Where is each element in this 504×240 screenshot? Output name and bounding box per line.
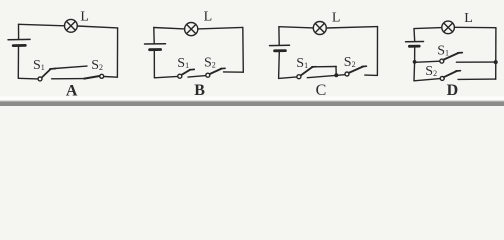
wire: A top-right segment	[77, 26, 118, 28]
switch S2 (D) contact circle	[440, 76, 444, 80]
wire: D middle line left	[415, 61, 440, 62]
wire: C left edge upper	[278, 27, 280, 45]
svg-text:B: B	[194, 82, 205, 99]
switch S1 (C) blade tip dash	[312, 66, 316, 68]
switch S1 (D) blade	[443, 53, 458, 60]
lamp L (B)	[185, 23, 198, 36]
wire: D bottom-left	[414, 79, 440, 81]
wire: A left edge upper	[18, 24, 20, 39]
lamp L (C)	[313, 22, 326, 35]
wire: A lower fixed-contact line	[52, 78, 85, 80]
wire: C top-left segment	[279, 27, 313, 28]
battery (C) short plate	[275, 49, 286, 52]
battery (C) long plate	[270, 44, 290, 46]
wire: C bottom-left	[279, 77, 297, 79]
switch S2 (A) blade	[84, 76, 99, 79]
switch S1 (C) blade	[301, 67, 313, 76]
battery (A) short plate	[13, 44, 25, 47]
svg-text:C: C	[316, 82, 327, 99]
wire: A bottom-left	[18, 77, 38, 80]
switch S2 (D) blade tip dash	[456, 70, 460, 72]
lamp L (D)	[442, 21, 455, 34]
wire: D right edge	[495, 28, 497, 79]
wire: B right edge	[242, 27, 245, 72]
white strip above bottom bar	[0, 97, 504, 102]
switch S1 (A) blade	[42, 69, 51, 78]
switch S1 (D) contact circle	[440, 59, 444, 63]
wire: B top-left segment	[154, 28, 185, 29]
switch S1 (A) contact circle	[38, 77, 42, 81]
wire: B bottom-right	[224, 71, 244, 73]
svg-text:L: L	[332, 11, 341, 26]
battery (B) long plate	[145, 43, 166, 45]
wire: B top-right segment	[198, 27, 243, 29]
svg-text:A: A	[66, 82, 78, 99]
switch S1 (D) blade tip dash	[458, 52, 463, 54]
switch S2 (B) blade	[210, 69, 222, 75]
switch S1 (B) blade tip dash	[190, 68, 195, 70]
switch S2 (C) contact circle	[345, 72, 349, 76]
battery (A) long plate	[8, 38, 30, 40]
wire: C bottom-right	[365, 74, 378, 76]
wire: B bottom-left	[154, 76, 177, 77]
wire: D left edge lower	[413, 47, 416, 80]
switch S1 (B) contact circle	[178, 74, 182, 78]
wire: C top-right segment	[326, 27, 377, 28]
wire: A top-left segment	[19, 24, 65, 26]
wire: D top-right segment	[454, 26, 496, 28]
wire: B left edge upper	[153, 28, 155, 44]
switch S2 (B) contact circle	[206, 73, 210, 77]
switch S2 (B) blade tip dash	[221, 67, 225, 69]
switch S2 (D) blade	[444, 71, 457, 77]
wire: C vertical drop	[335, 67, 337, 76]
wire: C upper fixed line	[314, 66, 337, 68]
wire: B between switches	[188, 76, 206, 78]
svg-text:L: L	[80, 9, 89, 24]
battery (D) long plate	[406, 41, 424, 43]
lamp L (A)	[65, 19, 78, 32]
svg-text:L: L	[204, 10, 213, 25]
switch S2 (C) blade	[349, 67, 363, 73]
switch S1 (B) blade	[181, 70, 190, 75]
wire: A right edge	[116, 28, 118, 77]
battery (D) short plate	[409, 45, 419, 48]
wire: C left edge lower	[278, 52, 281, 79]
wire: A left edge lower	[17, 47, 19, 79]
wire: D bottom-right	[458, 78, 496, 80]
wire: A bottom-right to S2	[104, 76, 118, 79]
junction dot (D right)	[494, 60, 498, 64]
wire: C lower line through junction	[307, 75, 345, 78]
wire: A upper fixed-contact line	[55, 66, 88, 68]
svg-text:D: D	[447, 82, 459, 99]
battery (B) short plate	[150, 48, 161, 51]
switch S1 (C) contact circle	[297, 75, 301, 79]
grey bottom bar	[0, 101, 504, 106]
junction dot (C)	[334, 73, 338, 77]
wire: C right edge	[376, 27, 378, 76]
wire: B left edge lower	[153, 51, 155, 78]
wire: D middle line right	[456, 61, 493, 63]
switch S2 (A) contact circle	[100, 74, 104, 78]
wire: D left edge upper	[413, 29, 416, 41]
page background	[0, 0, 504, 106]
junction dot (D left)	[413, 60, 417, 64]
wire: D top-left segment	[414, 28, 442, 29]
svg-text:L: L	[464, 11, 473, 26]
switch S1 (A) blade tip dash	[50, 68, 56, 71]
switch S2 (C) blade tip dash	[362, 65, 366, 67]
